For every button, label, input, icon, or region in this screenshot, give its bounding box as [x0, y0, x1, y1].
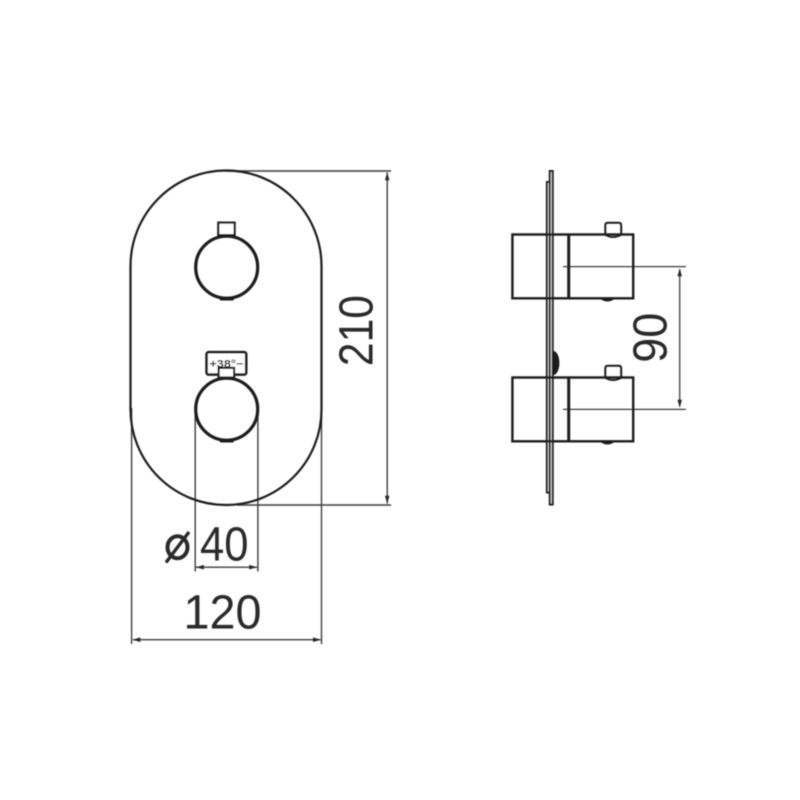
- svg-text:210: 210: [331, 295, 384, 366]
- svg-text:120: 120: [184, 587, 262, 640]
- svg-text:90: 90: [624, 313, 677, 363]
- svg-text:40: 40: [200, 519, 249, 572]
